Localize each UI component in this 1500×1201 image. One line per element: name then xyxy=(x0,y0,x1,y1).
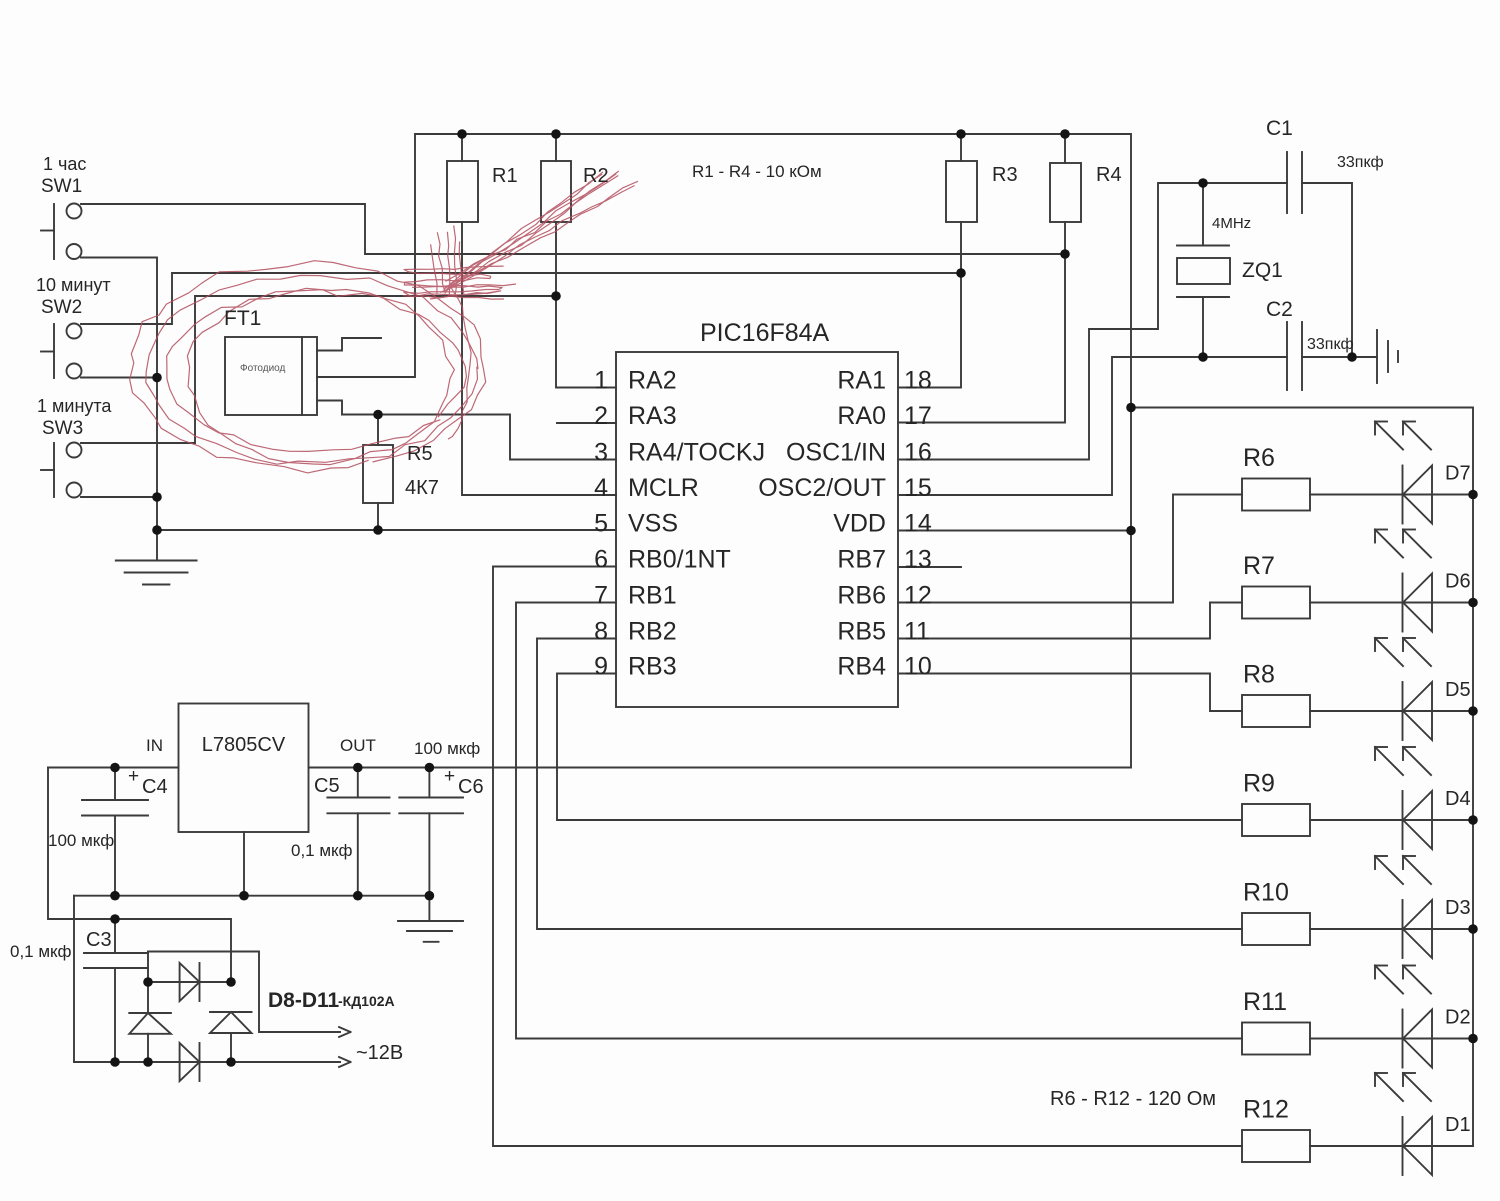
svg-text:OSC1/IN: OSC1/IN xyxy=(786,439,886,467)
svg-text:D5: D5 xyxy=(1445,679,1471,701)
svg-text:11: 11 xyxy=(904,618,930,646)
svg-text:D8-D11: D8-D11 xyxy=(268,989,340,1012)
svg-text:R9: R9 xyxy=(1243,770,1275,798)
svg-text:R5: R5 xyxy=(407,443,433,465)
svg-text:RB1: RB1 xyxy=(628,582,677,610)
svg-text:RB2: RB2 xyxy=(628,618,677,646)
svg-text:C2: C2 xyxy=(1266,298,1293,321)
svg-text:1 час: 1 час xyxy=(43,154,86,174)
svg-text:2: 2 xyxy=(594,402,608,430)
svg-text:RB3: RB3 xyxy=(628,653,677,681)
svg-text:7: 7 xyxy=(594,582,608,610)
svg-text:R12: R12 xyxy=(1243,1096,1289,1124)
svg-text:RB4: RB4 xyxy=(837,653,886,681)
svg-text:4К7: 4К7 xyxy=(405,477,439,499)
svg-text:RA4/TOCKJ: RA4/TOCKJ xyxy=(628,439,765,467)
svg-text:R2: R2 xyxy=(583,165,609,187)
svg-text:RB5: RB5 xyxy=(837,618,886,646)
svg-text:VSS: VSS xyxy=(628,510,678,538)
svg-text:0,1 мкф: 0,1 мкф xyxy=(291,841,352,860)
svg-text:-КД102А: -КД102А xyxy=(338,993,395,1009)
svg-text:D7: D7 xyxy=(1445,463,1471,485)
svg-text:SW2: SW2 xyxy=(41,297,82,318)
svg-text:RB6: RB6 xyxy=(837,582,886,610)
svg-text:D2: D2 xyxy=(1445,1007,1471,1029)
svg-text:RA0: RA0 xyxy=(837,402,886,430)
svg-text:RB7: RB7 xyxy=(837,546,886,574)
svg-text:100 мкф: 100 мкф xyxy=(414,739,480,758)
svg-text:15: 15 xyxy=(904,474,932,502)
svg-text:R10: R10 xyxy=(1243,879,1289,907)
svg-text:C3: C3 xyxy=(86,929,112,951)
svg-text:+: + xyxy=(444,766,455,787)
svg-text:+: + xyxy=(128,766,139,787)
svg-text:D3: D3 xyxy=(1445,897,1471,919)
svg-text:OSC2/OUT: OSC2/OUT xyxy=(758,474,886,502)
svg-text:1 минута: 1 минута xyxy=(37,396,112,416)
svg-text:OUT: OUT xyxy=(340,736,376,755)
svg-text:MCLR: MCLR xyxy=(628,474,699,502)
svg-text:13: 13 xyxy=(904,546,932,574)
svg-text:33пкф: 33пкф xyxy=(1337,154,1384,171)
svg-text:IN: IN xyxy=(146,736,163,755)
svg-text:C6: C6 xyxy=(458,776,484,798)
svg-text:4MHz: 4MHz xyxy=(1212,215,1251,232)
svg-text:RA2: RA2 xyxy=(628,367,677,395)
svg-text:FT1: FT1 xyxy=(224,307,261,330)
svg-text:9: 9 xyxy=(594,653,608,681)
svg-text:VDD: VDD xyxy=(833,510,886,538)
svg-text:10: 10 xyxy=(904,653,932,681)
svg-text:PIC16F84A: PIC16F84A xyxy=(700,319,830,347)
svg-text:R8: R8 xyxy=(1243,661,1275,689)
svg-text:L7805CV: L7805CV xyxy=(202,734,286,756)
svg-text:0,1 мкф: 0,1 мкф xyxy=(10,942,71,961)
svg-text:4: 4 xyxy=(594,474,608,502)
svg-text:8: 8 xyxy=(594,618,608,646)
svg-text:16: 16 xyxy=(904,439,932,467)
svg-text:10 минут: 10 минут xyxy=(36,275,111,295)
svg-text:R1: R1 xyxy=(492,165,518,187)
svg-text:33пкф: 33пкф xyxy=(1307,336,1354,353)
svg-text:R6 - R12 - 120 Ом: R6 - R12 - 120 Ом xyxy=(1050,1088,1216,1110)
svg-text:R1 - R4 - 10 кОм: R1 - R4 - 10 кОм xyxy=(692,162,822,181)
svg-text:SW1: SW1 xyxy=(41,176,82,197)
svg-text:5: 5 xyxy=(594,510,608,538)
svg-text:C1: C1 xyxy=(1266,117,1293,140)
svg-text:~12В: ~12В xyxy=(356,1042,403,1064)
svg-text:12: 12 xyxy=(904,582,932,610)
svg-text:C4: C4 xyxy=(142,776,168,798)
svg-text:C5: C5 xyxy=(314,775,340,797)
svg-text:SW3: SW3 xyxy=(42,418,83,439)
svg-text:14: 14 xyxy=(904,510,932,538)
svg-text:RA1: RA1 xyxy=(837,367,886,395)
svg-text:R7: R7 xyxy=(1243,552,1275,580)
svg-text:D6: D6 xyxy=(1445,571,1471,593)
svg-text:ZQ1: ZQ1 xyxy=(1242,259,1283,282)
svg-text:100 мкф: 100 мкф xyxy=(48,831,114,850)
svg-text:18: 18 xyxy=(904,367,932,395)
svg-text:D1: D1 xyxy=(1445,1114,1471,1136)
svg-text:RA3: RA3 xyxy=(628,402,677,430)
svg-text:6: 6 xyxy=(594,546,608,574)
svg-text:3: 3 xyxy=(594,439,608,467)
svg-text:R11: R11 xyxy=(1243,988,1287,1016)
svg-text:Фотодиод: Фотодиод xyxy=(240,363,286,374)
svg-text:D4: D4 xyxy=(1445,788,1471,810)
svg-text:1: 1 xyxy=(594,367,608,395)
svg-text:R3: R3 xyxy=(992,164,1018,186)
svg-text:R4: R4 xyxy=(1096,164,1122,186)
svg-text:RB0/1NT: RB0/1NT xyxy=(628,546,731,574)
svg-text:17: 17 xyxy=(904,402,932,430)
svg-text:R6: R6 xyxy=(1243,444,1275,472)
